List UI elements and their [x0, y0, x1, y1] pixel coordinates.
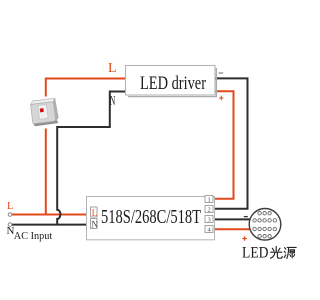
wire red from LED driver + down to terminal 1 [214, 91, 234, 199]
op-amp U2: 518S/268C/518T control box [87, 197, 215, 240]
LED lamp DS1 (round LED module) [249, 209, 281, 241]
wire red from switch bottom down to L wire [45, 129, 47, 215]
label + (LED driver plus, red) [219, 96, 223, 100]
wire red L input horizontal [12, 214, 91, 216]
switch S1 (rocker switch cube) [30, 98, 59, 126]
wire black terminal 3 to LED - [214, 218, 250, 220]
wire black from LED driver N down-left with hop over red wire [57, 92, 125, 225]
svg-text:L: L [108, 61, 117, 76]
label - (LED lamp minus) [244, 216, 248, 218]
op-amp U1: LED driver box [126, 66, 217, 97]
label - (LED driver minus) [219, 72, 224, 74]
glyph 源 [284, 247, 296, 258]
node L input terminal [8, 213, 12, 217]
pin 3 of U2 [205, 216, 213, 224]
label + (LED lamp plus, red) [242, 236, 247, 241]
svg-text:L: L [7, 201, 13, 212]
svg-text:3: 3 [208, 217, 211, 224]
svg-text:N: N [91, 220, 98, 230]
pin 2 of U2 [205, 206, 213, 214]
wire red terminal 4 to LED + [214, 228, 251, 230]
svg-text:1: 1 [208, 197, 211, 204]
pin N of U2 [91, 219, 99, 231]
glyph 光 [271, 247, 283, 259]
svg-text:LED driver: LED driver [140, 73, 207, 94]
wire red from switch top to LED driver L [46, 79, 126, 97]
svg-text:N: N [110, 93, 116, 108]
svg-text:AC Input: AC Input [14, 230, 53, 242]
svg-text:L: L [92, 209, 98, 219]
svg-text:2: 2 [208, 207, 211, 214]
svg-text:LED: LED [242, 245, 269, 262]
svg-text:518S/268C/518T: 518S/268C/518T [101, 206, 201, 228]
wire black N input horizontal [12, 224, 91, 226]
node N input terminal [8, 223, 12, 227]
pin 1 of U2 [205, 196, 213, 204]
label LED 光源 [242, 245, 296, 262]
pin L of U2 [91, 207, 98, 219]
pin 4 of U2 [205, 226, 213, 234]
wire black from LED driver - down to terminal 2 [214, 78, 248, 208]
